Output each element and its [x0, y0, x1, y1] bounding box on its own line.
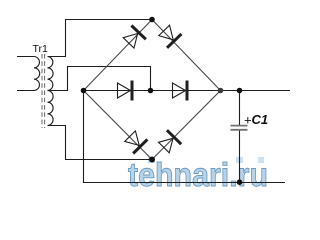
- transformer core: [41, 54, 43, 128]
- wire: secondary bottom to bottom vertex: [48, 126, 153, 160]
- diode D5 (middle rail left): [118, 81, 133, 101]
- diode D2 (T to R edge): [157, 24, 181, 48]
- node C1 bottom junction: [237, 179, 243, 185]
- diode D6 (middle rail right): [173, 81, 188, 101]
- wire: secondary top to top rail: [48, 20, 153, 57]
- capacitor C1 plates: [231, 126, 248, 130]
- wire: middle rail left vertex to right vertex: [84, 90, 221, 92]
- wire: bridge edge L-B: [84, 91, 153, 160]
- svg-text:Tr1: Tr1: [33, 43, 49, 55]
- wire: bridge edge L-T: [84, 20, 153, 91]
- diode D1 (L to T edge): [121, 25, 145, 49]
- svg-text:+: +: [244, 112, 252, 127]
- diode D3 (L to B edge): [123, 129, 147, 153]
- node L (left vertex): [81, 88, 87, 94]
- watermark tehnari.ru: [128, 156, 268, 193]
- transformer Tr1 : primary winding: [17, 57, 40, 91]
- wire: right vertex to right output rail: [221, 90, 291, 92]
- wire: center tap to middle node: [48, 67, 151, 91]
- wire: bridge edge T-R: [152, 20, 221, 91]
- node B (bottom vertex): [149, 157, 155, 163]
- node C1 top junction: [237, 88, 243, 94]
- node M (middle rail tap junction): [148, 88, 154, 94]
- transformer secondary winding: [48, 57, 54, 126]
- capacitor C1 leads: [239, 91, 241, 126]
- wire: left vertex down and bottom output rail: [84, 91, 286, 183]
- svg-text:C1: C1: [252, 112, 269, 127]
- diode D4 (B to R edge): [157, 130, 181, 154]
- wire: bridge edge B-R: [152, 91, 221, 160]
- node T (top vertex): [149, 17, 155, 23]
- node R (right vertex): [218, 88, 224, 94]
